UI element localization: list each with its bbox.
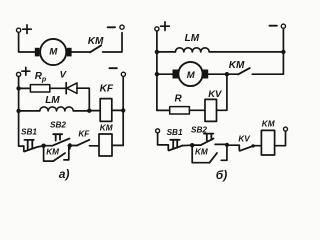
wire (b: right bus down and to KM fixed contact) <box>252 28 283 74</box>
wire (b: motor to KM contact) <box>208 73 238 75</box>
pushbutton SB1 (b) stub <box>167 145 169 150</box>
brush left of motor M (a) <box>35 48 40 57</box>
node (b: LM branch) <box>155 50 159 54</box>
svg-text:M: M <box>187 70 196 81</box>
contact KF (a) blade <box>77 140 90 146</box>
contact KV (b) stub <box>238 145 240 150</box>
minus sign (a armature) <box>108 26 116 28</box>
pushbutton SB2 (a) plunger <box>53 134 62 140</box>
contactor coil KM (a) <box>99 134 112 156</box>
contact KM main (b) blade <box>238 68 250 74</box>
wire (a: diode to node) <box>77 88 89 110</box>
svg-text:а): а) <box>59 167 70 181</box>
wire (b: LM to right bus) <box>209 51 283 53</box>
wire (a: LM coil to node and to KF coil) <box>74 110 101 112</box>
svg-text:LM: LM <box>185 33 200 44</box>
wire (b: node to KV contact) <box>227 144 239 146</box>
contact KF (a) fixed side <box>89 145 99 147</box>
svg-text:KV: KV <box>208 89 222 100</box>
wire (a: KM coil to right bus) <box>112 144 123 146</box>
svg-text:KF: KF <box>78 130 90 139</box>
wire (a: right bus) <box>122 77 124 146</box>
plus sign (a armature) <box>23 25 32 34</box>
svg-text:KM: KM <box>262 120 275 129</box>
plus sign (a field) <box>22 67 30 75</box>
wire (a: + terminal to motor) <box>19 33 35 53</box>
wire (b: bus to LM) <box>157 51 176 53</box>
svg-text:KM: KM <box>229 60 245 71</box>
svg-text:б): б) <box>216 168 227 182</box>
relay coil KF <box>100 99 112 122</box>
contactor coil KM (b) <box>261 130 274 155</box>
pushbutton SB2 (b) blade <box>201 139 213 145</box>
wire (a: Rp to diode) <box>50 87 66 89</box>
minus sign (a field) <box>109 67 117 69</box>
terminal - (b) <box>281 24 285 28</box>
wire (b: bus corner to R) <box>157 109 170 111</box>
svg-text:KM: KM <box>46 148 59 157</box>
node (a: LM branch on bus) <box>16 109 20 113</box>
svg-text:R: R <box>175 93 183 104</box>
pushbutton SB2 (b) plunger <box>204 134 213 141</box>
resistor Rp <box>30 85 49 92</box>
wire (a: KM fixed side to - terminal) <box>103 33 122 52</box>
minus sign (b) <box>269 25 277 27</box>
wire (b: KV contact to KM coil) <box>253 145 262 147</box>
pushbutton SB2 (a) blade <box>52 139 69 146</box>
node (a: SB1/SB2 junction) <box>41 144 45 148</box>
wire (b: node to SB2 hinge) <box>192 144 201 146</box>
motor M (a) <box>40 39 66 65</box>
svg-text:KV: KV <box>238 134 251 143</box>
terminal + (b) <box>155 27 159 31</box>
node (b: motor branch) <box>155 72 159 76</box>
contact KM latch (b) blade <box>209 153 217 163</box>
wire (b: bus to motor) <box>157 73 173 75</box>
contact KM latch (b) fixed foot <box>221 145 227 160</box>
wire (a: bus to LM coil) <box>19 110 40 112</box>
wire (b: KM coil to right terminal) <box>275 131 286 146</box>
contact KV (b) blade <box>240 146 253 151</box>
diode V (triangle) <box>67 83 77 94</box>
svg-text:KF: KF <box>100 84 114 95</box>
plus sign (b) <box>161 22 170 31</box>
inductor LM (a) <box>40 107 73 111</box>
wire (a: node to KF contact) <box>70 145 77 147</box>
terminal - (a field) <box>121 72 125 76</box>
brush left of motor M (b) <box>173 70 179 79</box>
svg-text:SB2: SB2 <box>50 121 66 130</box>
svg-text:SB1: SB1 <box>167 128 183 137</box>
wire (a: bus to Rp) <box>19 87 31 89</box>
svg-text:V: V <box>60 69 67 80</box>
svg-text:KM: KM <box>100 123 113 132</box>
contact KM latch (a) blade <box>53 153 65 161</box>
svg-text:Rp: Rp <box>35 71 47 84</box>
wire (b: terminal to SB1) <box>158 133 169 145</box>
wire (a: node to SB2 hinge) <box>44 145 53 147</box>
inductor LM (b) <box>175 48 209 52</box>
pushbutton SB1 (b) blade <box>169 146 183 151</box>
terminal - (a armature) <box>120 25 124 29</box>
diode V (cathode bar) <box>65 83 67 94</box>
brush right of motor M (a) <box>67 48 72 57</box>
svg-text:M: M <box>49 47 58 58</box>
node (b: SB1/SB2 junction) <box>190 143 194 147</box>
wire (b: R to KV coil) <box>189 109 205 111</box>
contact KM latch (a) left drop <box>44 146 53 161</box>
wire (b: left bus) <box>156 31 158 110</box>
node (b: SB2/KV junction) <box>225 143 229 147</box>
svg-text:LM: LM <box>45 95 60 106</box>
node (a: SB2/KF junction) <box>68 143 72 147</box>
wire (a: motor to KM contact) <box>72 51 90 53</box>
motor M (b) <box>178 62 202 86</box>
node (b: KV riser junction) <box>225 72 229 76</box>
svg-text:SB2: SB2 <box>191 125 207 134</box>
wire (a: left bus) <box>19 77 24 147</box>
contact KM latch (b) left drop <box>192 145 209 163</box>
terminal + (a armature) <box>17 28 21 32</box>
pushbutton SB1 (a) blade <box>24 146 43 152</box>
wire (b: KV coil riser to motor line) <box>217 74 227 110</box>
contact KM latch (a) fixed foot <box>64 146 69 160</box>
node (b: right bus / LM) <box>281 50 285 54</box>
svg-text:SB1: SB1 <box>21 128 37 137</box>
resistor R <box>170 107 190 114</box>
contact KM main (a) blade <box>90 45 101 52</box>
pushbutton SB1 (b) plunger <box>170 140 179 149</box>
relay coil KV <box>205 99 217 121</box>
node (a: diode/LM junction) <box>87 109 91 113</box>
node (a: Rp branch junction) <box>16 86 20 90</box>
pushbutton SB1 (a) plunger <box>24 140 33 149</box>
brush right of motor M (b) <box>203 70 209 79</box>
wire (a: KF coil to right bus) <box>112 109 123 111</box>
pushbutton SB1 (a) stub <box>23 146 25 151</box>
terminal (b control left) <box>156 129 160 133</box>
pushbutton SB2 (b) fixed side <box>215 143 227 145</box>
wire (b: SB1 to node) <box>182 144 192 146</box>
terminal (b control right) <box>284 127 288 131</box>
node (a: right bus / KF) <box>121 108 125 112</box>
svg-text:KM: KM <box>88 36 104 47</box>
terminal + (a field) <box>17 72 21 76</box>
pushbutton SB2 (a) fixed tick <box>68 145 70 149</box>
svg-text:KM: KM <box>195 148 208 157</box>
node (b: KV blade tip blob) <box>251 144 254 147</box>
